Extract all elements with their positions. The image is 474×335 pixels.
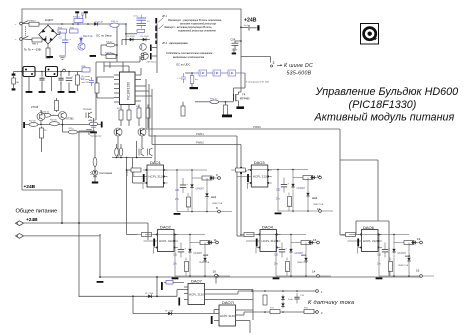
svg-text:С 1н: С 1н (177, 78, 181, 80)
svg-text:Общее питание: Общее питание (16, 209, 58, 215)
svg-text:ПМВ ПСА: ПМВ ПСА (297, 261, 308, 264)
svg-text:R32 1к: R32 1к (73, 17, 80, 19)
svg-text:1он: 1он (195, 79, 198, 81)
svg-text:ОС по UDC: ОС по UDC (176, 63, 190, 67)
svg-text:9: 9 (216, 173, 218, 177)
svg-text:R2: R2 (117, 108, 121, 110)
svg-text:DAO7: DAO7 (191, 279, 203, 284)
svg-text:КТ361: КТ361 (67, 118, 75, 121)
svg-text:C39: C39 (231, 39, 236, 42)
svg-text:HCPL 3120: HCPL 3120 (189, 293, 204, 297)
svg-text:PWM0: PWM0 (253, 125, 261, 129)
svg-text:3: 3 (273, 61, 275, 65)
svg-text:ПМВ ПСА: ПМВ ПСА (313, 203, 324, 206)
svg-text:ОС по Uвых: ОС по Uвых (96, 34, 112, 38)
svg-text:DAO6: DAO6 (363, 225, 375, 230)
svg-text:РИ1 2: РИ1 2 (30, 21, 37, 23)
svg-text:К шине DC: К шине DC (284, 63, 313, 69)
svg-text:PWM1: PWM1 (196, 132, 204, 136)
svg-text:+: + (70, 38, 72, 41)
svg-text:+5П (пит.): +5П (пит.) (146, 62, 156, 64)
svg-text:К датчику тока: К датчику тока (308, 300, 354, 306)
svg-text:ПМВ ПСА: ПМВ ПСА (398, 264, 409, 267)
svg-text:ОУ травм.: ОУ травм. (81, 76, 91, 78)
svg-text:47к: 47к (44, 130, 47, 132)
svg-text:2: 2 (321, 311, 323, 315)
svg-text:1: 1 (321, 290, 323, 294)
svg-text:Состояние: Состояние (99, 171, 112, 175)
svg-text:5мВт: 5мВт (288, 299, 293, 301)
svg-text:19: 19 (417, 237, 421, 241)
svg-text:R36 1к: R36 1к (111, 21, 118, 23)
svg-text:Активный модуль питания: Активный модуль питания (314, 111, 455, 123)
svg-text:535-600В: 535-600В (287, 71, 312, 77)
svg-text:DAO2: DAO2 (160, 225, 172, 230)
svg-text:DAO3: DAO3 (254, 160, 266, 165)
svg-text:10у 1н: 10у 1н (244, 25, 250, 27)
svg-text:РИ1 1к: РИ1 1к (210, 99, 217, 101)
svg-text:PIC18F1330: PIC18F1330 (127, 82, 131, 100)
svg-text:14: 14 (312, 270, 316, 274)
svg-text:12: 12 (317, 207, 321, 211)
svg-text:Термодатчик: Термодатчик (90, 136, 101, 138)
svg-text:мв3: мв3 (312, 196, 318, 200)
svg-text:С5: С5 (147, 21, 150, 23)
svg-text:~: ~ (15, 38, 17, 42)
svg-text:ПМВ ПСА: ПМВ ПСА (199, 261, 210, 264)
svg-text:HCPL 3120: HCPL 3120 (220, 314, 235, 318)
svg-text:С4 1у: С4 1у (133, 16, 138, 18)
svg-text:РИ2 2: РИ2 2 (32, 44, 39, 46)
svg-text:К затвору реле К1 24В: К затвору реле К1 24В (246, 82, 269, 84)
svg-text:(PIC18F1330): (PIC18F1330) (349, 99, 417, 111)
svg-text:5А: 5А (16, 81, 19, 84)
svg-text:мв4: мв4 (301, 253, 307, 257)
svg-text:100п: 100п (232, 49, 238, 52)
svg-text:ОУ 4148: ОУ 4148 (126, 36, 135, 38)
svg-text:8: 8 (216, 206, 218, 210)
svg-text:Тр Тр = ~19В: Тр Тр = ~19В (24, 48, 41, 52)
svg-text:R57 к: R57 к (69, 128, 74, 130)
svg-text:~: ~ (15, 23, 17, 27)
svg-text:РИА: РИА (81, 65, 86, 68)
svg-text:T4: T4 (242, 93, 246, 97)
svg-text:выделенных компонентов: выделенных компонентов (173, 56, 205, 59)
svg-text:C34: C34 (300, 295, 305, 297)
svg-text:ИГ 4148: ИГ 4148 (145, 293, 154, 295)
svg-text:16: 16 (416, 269, 420, 273)
svg-text:+24В: +24В (24, 184, 36, 190)
svg-text:JP 4 - зарезервирован: JP 4 - зарезервирован (162, 42, 188, 45)
svg-text:13: 13 (317, 174, 321, 178)
svg-text:Управление Бульдюк HD600: Управление Бульдюк HD600 (315, 86, 459, 98)
svg-text:+24В: +24В (244, 18, 257, 24)
svg-text:R35 1к: R35 1к (106, 42, 112, 44)
svg-text:DAO4: DAO4 (262, 225, 274, 230)
svg-text:мв1: мв1 (211, 195, 217, 199)
svg-text:C2: C2 (59, 37, 63, 40)
svg-text:ДУ 4148: ДУ 4148 (95, 22, 104, 24)
svg-text:15: 15 (313, 238, 317, 242)
svg-text:R44 1к: R44 1к (105, 53, 112, 55)
svg-text:мв2: мв2 (203, 253, 209, 257)
svg-text:PWM2: PWM2 (196, 141, 204, 145)
svg-text:мв6: мв6 (405, 254, 411, 258)
svg-text:DAO1: DAO1 (150, 160, 162, 165)
svg-text:ПУСКФУ: ПУСКФУ (83, 108, 92, 111)
svg-text:ОУ 4148: ОУ 4148 (140, 36, 149, 38)
svg-text:+24В: +24В (26, 217, 38, 223)
svg-text:10: 10 (213, 270, 217, 274)
svg-text:R53 1/5: R53 1/5 (50, 120, 57, 122)
svg-text:R22 6.3k: R22 6.3k (83, 35, 93, 38)
svg-text:IRFP460: IRFP460 (240, 98, 250, 101)
svg-text:Соблюдать соответствие номинал: Соблюдать соответствие номиналов (166, 52, 213, 55)
svg-text:тормозной резистор отключен: тормозной резистор отключен (178, 30, 216, 33)
svg-text:сеть 220: сеть 220 (81, 82, 90, 84)
svg-text:JP 1: JP 1 (162, 15, 168, 18)
svg-text:КТ315: КТ315 (31, 106, 39, 109)
svg-text:+: + (72, 76, 74, 79)
svg-text:КЦ407: КЦ407 (45, 18, 54, 22)
svg-text:R52 1/5: R52 1/5 (29, 121, 36, 123)
svg-text:ПМВ ПСА: ПМВ ПСА (212, 202, 223, 205)
svg-text:11: 11 (214, 238, 217, 242)
svg-text:DAO7i: DAO7i (222, 300, 234, 305)
svg-text:ИГ 4148: ИГ 4148 (165, 311, 174, 313)
